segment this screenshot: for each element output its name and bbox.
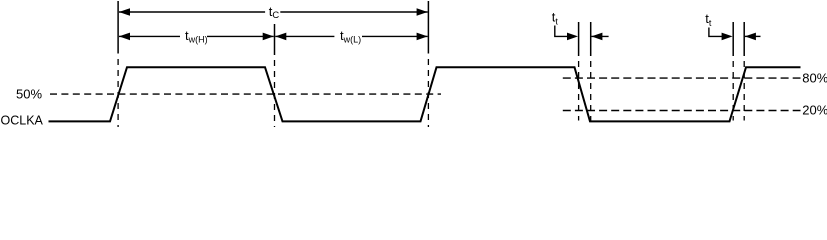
svg-text:20%: 20%: [802, 103, 827, 118]
svg-text:tw(L): tw(L): [340, 28, 361, 45]
tt arrows at falling edge: [555, 26, 609, 41]
tw(H) dimension arrow: [119, 33, 274, 41]
extension line at second rising edge (x=428.4): [427, 1, 429, 54]
tt arrows at rising edge: [709, 28, 761, 41]
svg-text:50%: 50%: [16, 87, 42, 102]
svg-text:tC: tC: [269, 4, 280, 20]
80% reference dashed line: [563, 77, 801, 79]
svg-text:tt: tt: [705, 11, 712, 28]
50% reference dashed line: [50, 93, 441, 95]
svg-text:tt: tt: [552, 10, 559, 27]
svg-text:OCLKA: OCLKA: [1, 113, 44, 127]
svg-text:tw(H): tw(H): [185, 28, 208, 45]
svg-text:80%: 80%: [802, 71, 827, 86]
tC dimension arrow row: [119, 8, 428, 16]
waveform OCLKA trace: [49, 67, 801, 121]
tt extension lines at falling edge: [578, 22, 580, 56]
20% reference dashed line: [563, 110, 801, 112]
tw(L) dimension arrow: [275, 33, 427, 41]
tt extension lines at rising edge: [732, 22, 734, 56]
extension line at first rising edge (x=118): [117, 1, 119, 54]
extension line at falling edge (x=274.5): [274, 24, 276, 55]
